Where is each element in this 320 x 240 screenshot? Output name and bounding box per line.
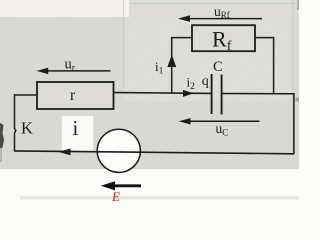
arrow i on bottom wire (points left): [58, 149, 70, 156]
scan light top-left strip: [0, 0, 129, 17]
svg-text:E: E: [111, 189, 120, 203]
wire right vertical: [293, 93, 295, 154]
wire Rf left lead: [172, 37, 192, 39]
scan noise texture: [0, 17, 299, 170]
arrow i2 (points right): [183, 90, 194, 97]
arrow u_C (points left): [179, 118, 191, 124]
scan faint bottom streak: [20, 196, 299, 200]
wire vertical Rf-left branch: [171, 37, 173, 93]
resistor r: [37, 82, 114, 109]
wire left vertical: [15, 94, 16, 150]
wire vertical Rf-right branch: [273, 37, 275, 94]
scan faint top edge line: [131, 3, 299, 4]
scan dark blob left edge: [0, 123, 4, 148]
source circle: [97, 129, 140, 172]
wire r left lead: [15, 94, 38, 96]
resistor Rf: [192, 25, 255, 51]
wire main horizontal node (r to C): [113, 92, 212, 95]
arrow u_r (points left): [37, 68, 49, 74]
svg-text:i: i: [73, 116, 79, 140]
capacitor C left plate: [211, 74, 213, 114]
scan gray top right strip: [129, 0, 299, 17]
svg-text:C: C: [213, 59, 223, 75]
arrow E (thick, points left): [106, 184, 141, 187]
wire C right to corner: [222, 93, 294, 95]
white patch with label i: [62, 116, 94, 151]
scan lighter pasted region top-right: [124, 0, 292, 101]
scan tick top-right corner: [297, 0, 298, 10]
scan faint vertical edge right: [292, 0, 293, 152]
wire Rf right lead: [255, 37, 274, 39]
scan tick right edge mid: [296, 98, 300, 102]
arrow u_Rf (points left): [178, 15, 190, 22]
arrow i1 (points up): [167, 55, 176, 68]
svg-text:r: r: [70, 87, 76, 104]
scan gray background main area: [0, 17, 299, 170]
svg-text:q: q: [202, 74, 209, 89]
svg-text:K: K: [21, 118, 33, 137]
scan faint vertical edge left of Rf block: [123, 0, 124, 88]
scan faint smudge left edge lower: [0, 148, 2, 162]
capacitor C right plate: [221, 75, 223, 115]
wire bottom: [14, 151, 294, 154]
scan bottom white band: [0, 169, 299, 203]
page background: [0, 0, 299, 203]
